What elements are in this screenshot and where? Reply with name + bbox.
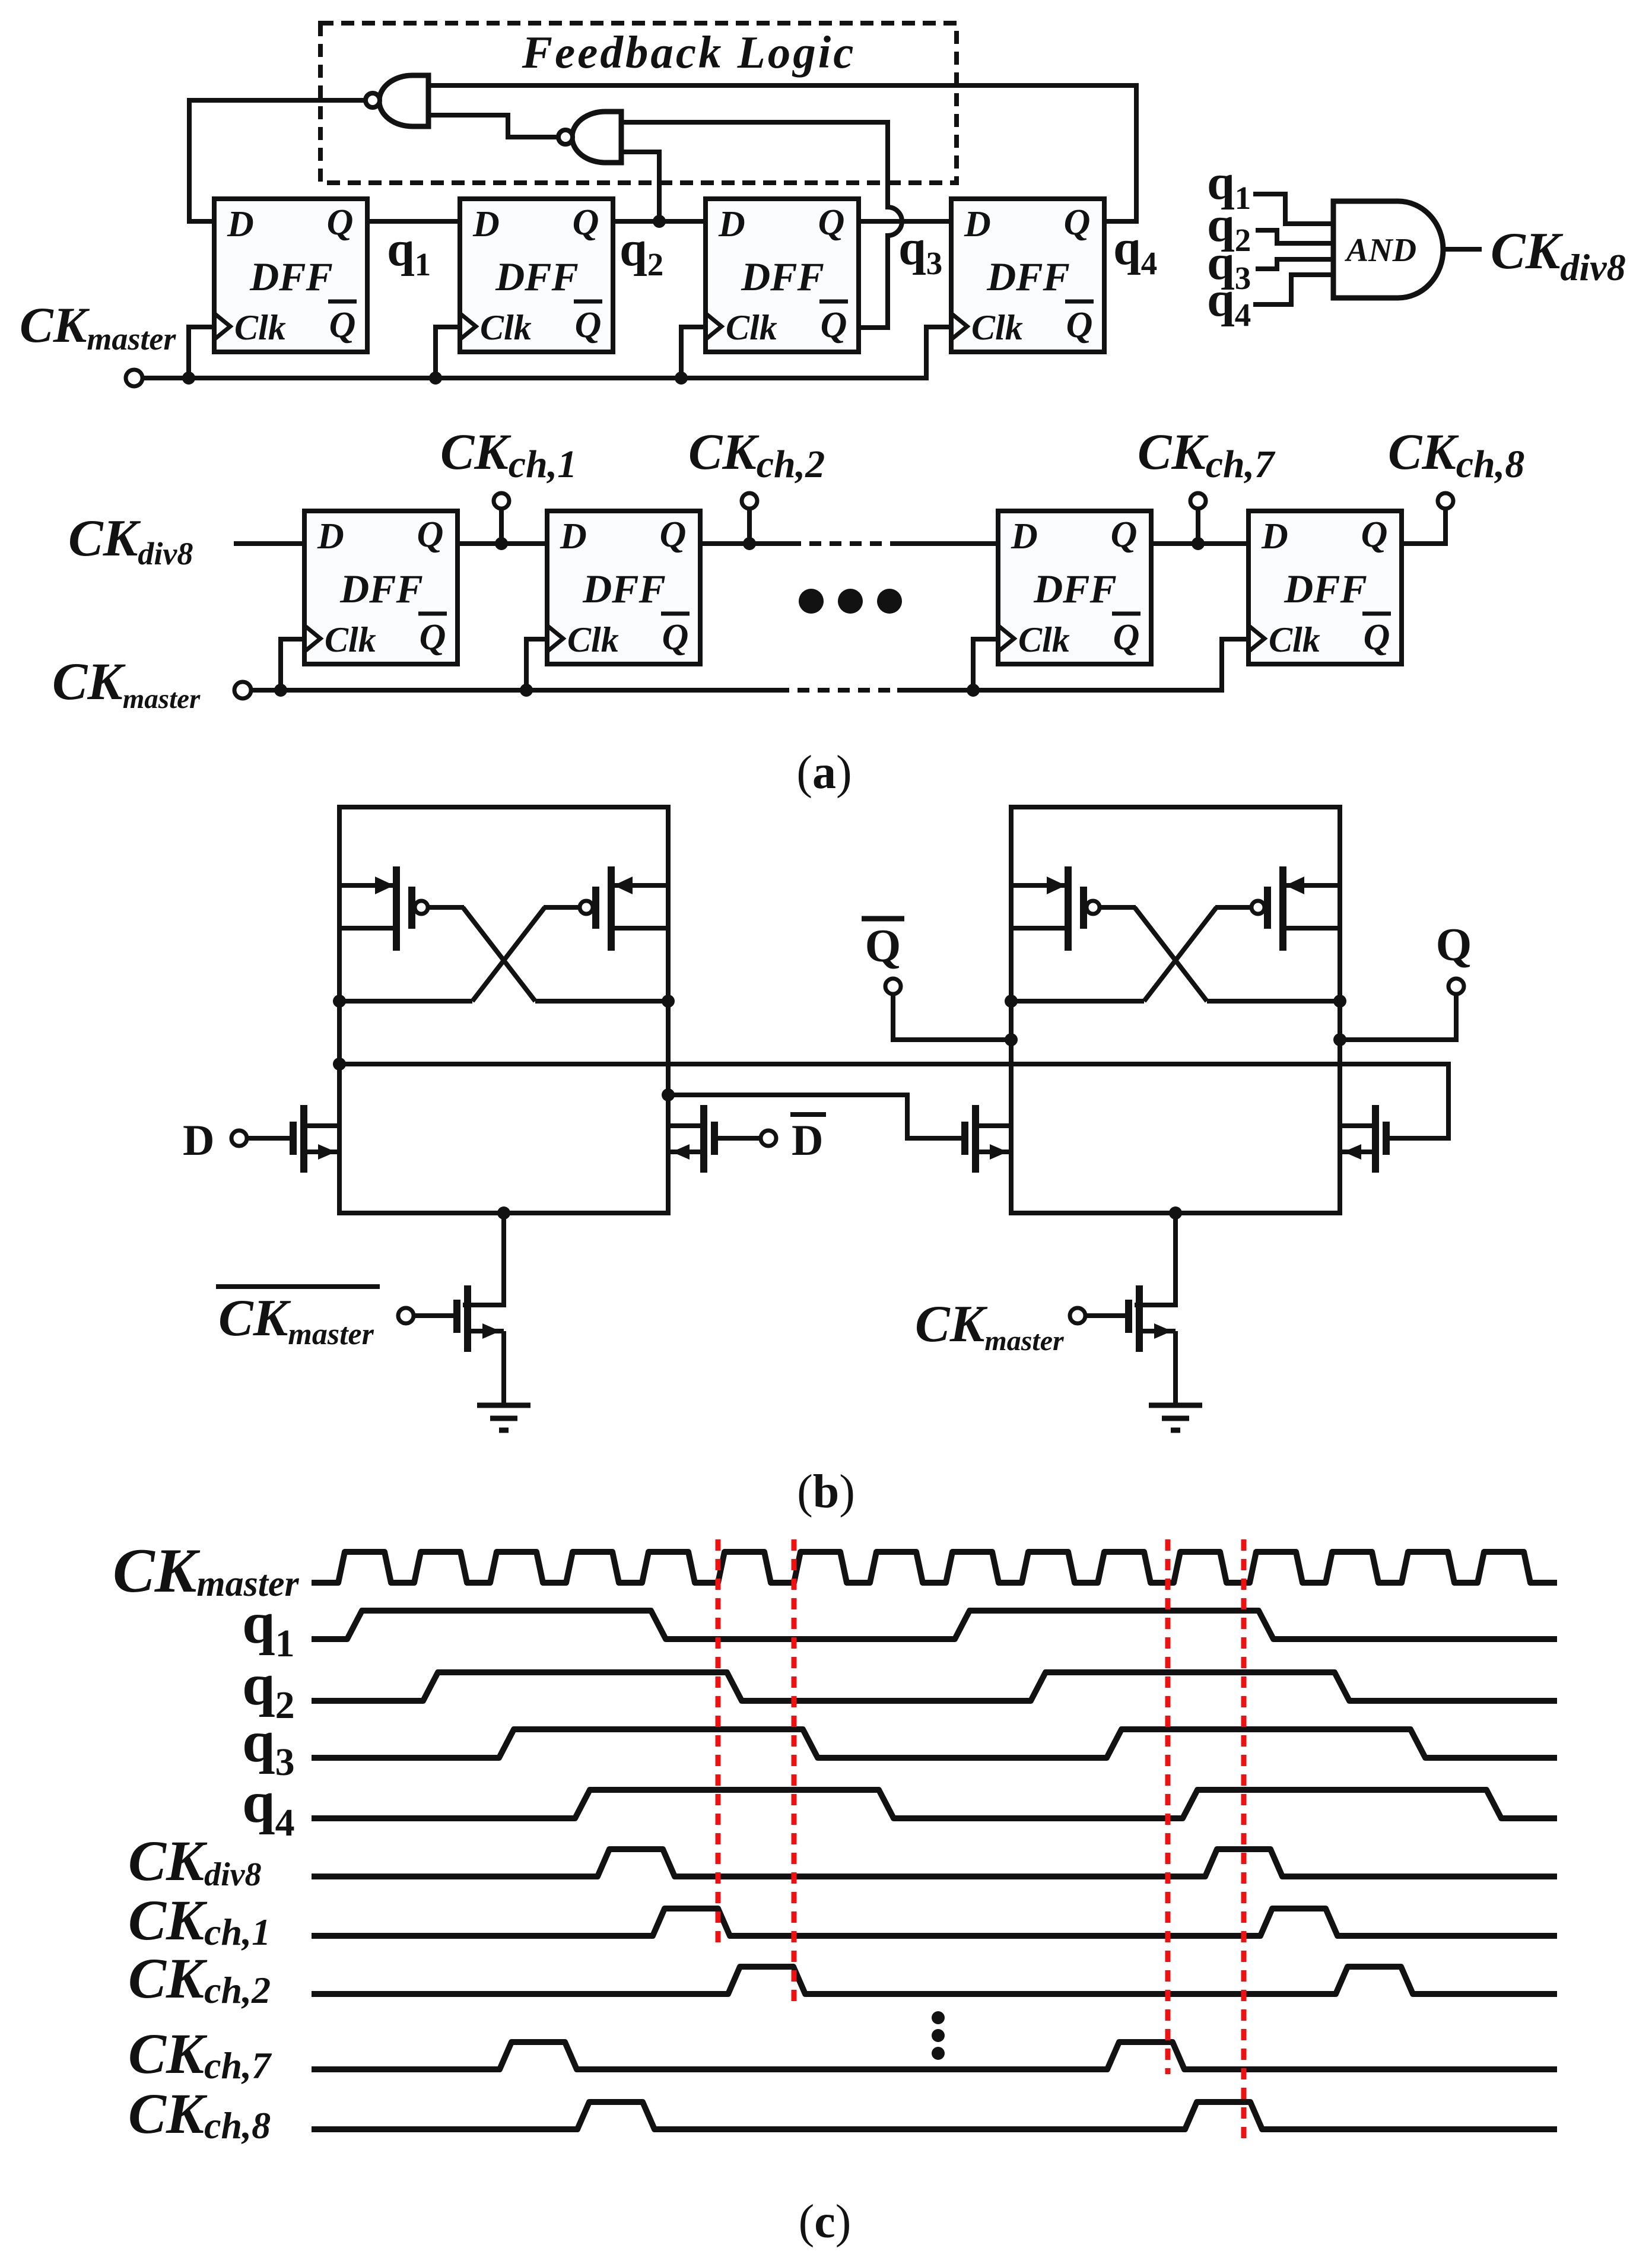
waveform: q4	[312, 1790, 1557, 1818]
wire: AND input q4	[1253, 275, 1333, 304]
transistor M4 (NMOS input, right)	[668, 1105, 714, 1173]
svg-text:Q: Q	[865, 920, 901, 971]
ellipsis dots between DFF6 and DFF7	[799, 589, 902, 614]
node: slave latch right output junction	[1333, 995, 1346, 1008]
svg-text:DFF: DFF	[741, 254, 824, 299]
waveform: q2	[312, 1672, 1557, 1701]
transistor M10 (NMOS tail, clocked)	[1086, 1285, 1176, 1352]
svg-text:D: D	[964, 204, 991, 245]
wire: AND input q1	[1253, 194, 1333, 224]
node: master latch right output junction	[662, 995, 675, 1008]
transistor M5 (NMOS tail, clocked)	[414, 1285, 504, 1352]
svg-text:Clk: Clk	[234, 308, 286, 347]
wire: AND input q3	[1256, 259, 1333, 269]
wire: cross-coupling diagonals and output nodes	[1011, 907, 1340, 1001]
svg-text:CKch,1: CKch,1	[128, 1888, 271, 1953]
wire: master left node to slave right NMOS gate	[339, 1064, 1448, 1138]
transistor M8 (NMOS input, left)	[965, 1105, 1011, 1173]
flip-flop U1 (DFF)	[214, 199, 367, 352]
svg-text:q1: q1	[387, 221, 431, 282]
svg-text:CKch,2: CKch,2	[688, 423, 825, 486]
wire: NAND G2 bottom input down to node q2	[621, 152, 659, 221]
svg-text:CKdiv8: CKdiv8	[128, 1829, 261, 1893]
svg-text:D: D	[718, 204, 745, 245]
node: tail junction	[1169, 1206, 1182, 1220]
svg-text:CKmaster: CKmaster	[915, 1295, 1065, 1357]
svg-text:Q: Q	[1064, 202, 1091, 243]
wire: tail source to ground	[501, 1331, 506, 1405]
node: clk junction DFF6	[520, 684, 533, 697]
svg-text:CKmaster: CKmaster	[218, 1290, 374, 1351]
wire: DFF7 Q to DFF8 D (CK_ch,7 tap)	[1151, 541, 1248, 546]
red cursor line 4	[1241, 1539, 1247, 2144]
terminal: CK_ch,7 output	[1196, 508, 1200, 544]
svg-text:D: D	[472, 204, 500, 245]
svg-text:CKch,2: CKch,2	[128, 1947, 271, 2011]
ellipsis dots in timing diagram	[932, 2011, 945, 2060]
svg-text:Q: Q	[821, 305, 847, 345]
svg-text:(c): (c)	[799, 2196, 852, 2248]
svg-text:q2: q2	[619, 221, 663, 282]
node: CK_ch,2 junction	[743, 537, 756, 550]
node: Q tap junction	[1333, 1033, 1346, 1046]
ground	[1149, 1405, 1202, 1430]
flip-flop U6 (DFF)	[547, 511, 700, 664]
svg-text:CKdiv8: CKdiv8	[1491, 223, 1626, 288]
waveform: CK_ch,7	[312, 2042, 1557, 2069]
transistor M3 (NMOS input, left)	[293, 1105, 339, 1173]
svg-text:Q: Q	[327, 202, 354, 243]
node: CK_ch,7 junction	[1192, 537, 1205, 550]
terminal: CK_master input (row 1)	[126, 370, 142, 386]
slave latch frame (VDD rail / tail bus)	[1011, 807, 1340, 1213]
svg-text:Q: Q	[1066, 305, 1093, 345]
svg-text:D: D	[183, 1116, 214, 1165]
waveform: CK_ch,8	[312, 2102, 1557, 2129]
svg-text:D: D	[317, 516, 344, 557]
flip-flop U5 (DFF)	[304, 511, 458, 664]
svg-text:Q: Q	[1113, 617, 1140, 658]
svg-text:Clk: Clk	[726, 308, 777, 347]
dashed boundary box: Feedback Logic	[320, 23, 957, 183]
svg-text:Q: Q	[1111, 515, 1138, 555]
NAND gate G2	[558, 112, 621, 163]
svg-text:Clk: Clk	[325, 620, 376, 659]
svg-text:Q: Q	[1364, 617, 1390, 658]
terminal: Qbar output	[885, 979, 1011, 1040]
label: CKmaster-bar (master tail clock, with overline)	[216, 1287, 380, 1351]
svg-text:AND: AND	[1345, 232, 1416, 269]
svg-text:CKch,7: CKch,7	[128, 2022, 272, 2087]
transistor M2 (PMOS, cross-coupled load, right)	[580, 866, 668, 951]
node: tail junction	[497, 1206, 510, 1220]
svg-text:CKch,8: CKch,8	[128, 2082, 271, 2146]
wire: DFF8 Q to CK_ch,8 terminal	[1402, 508, 1445, 544]
node: q2 junction	[653, 215, 666, 228]
svg-text:CKmaster: CKmaster	[20, 297, 176, 357]
svg-text:CKch,8: CKch,8	[1388, 423, 1524, 486]
flip-flop U4 (DFF)	[951, 199, 1104, 352]
svg-text:D: D	[1011, 516, 1038, 557]
wire: DFF6 Q rightwards (CK_ch,2 tap, dashed continuation)	[700, 541, 789, 546]
svg-text:DFF: DFF	[495, 254, 579, 299]
terminal: CK_ch,8 output	[1438, 493, 1453, 509]
wire: DFF1 Q to DFF2 D (node q1)	[367, 219, 460, 224]
svg-text:Q: Q	[575, 305, 602, 345]
wire: CK_master clock distribution (row 2, dashed middle)	[251, 639, 1248, 690]
waveform: CK_ch,1	[312, 1909, 1557, 1936]
terminal: clock input of M5	[398, 1308, 414, 1323]
terminal: CK_ch,1 output	[499, 508, 504, 544]
wire: DFF3 Q to DFF4 D (node q3)	[859, 219, 951, 224]
terminal: clock input of M10	[1070, 1308, 1085, 1323]
svg-text:D: D	[1261, 516, 1288, 557]
terminal: CK_ch,2 output	[747, 508, 752, 544]
wire: master right node to slave left NMOS gate	[668, 1095, 965, 1138]
svg-text:DFF: DFF	[1284, 566, 1367, 611]
terminal: D input	[247, 1136, 293, 1141]
waveform: q1	[312, 1611, 1557, 1639]
node: junction on master left rail	[333, 1058, 346, 1071]
red cursor line 2	[792, 1539, 797, 2005]
ground	[477, 1405, 530, 1430]
wire: DFF4 Q (q4) feedback to NAND G1 top input	[428, 85, 1136, 221]
wire: NAND G2 top input to DFF3 Qbar (with hop over q3 wire)	[621, 122, 902, 328]
red cursor line 3	[1165, 1539, 1171, 2074]
wire: cross-coupling diagonals and output nodes	[339, 907, 668, 1001]
terminal: CK_master input (row 2)	[234, 682, 251, 698]
svg-text:D: D	[227, 204, 254, 245]
svg-text:DFF: DFF	[986, 254, 1070, 299]
wire: AND input q2	[1256, 230, 1333, 243]
svg-text:(b): (b)	[797, 1466, 855, 1518]
node: Qbar tap junction	[1005, 1033, 1018, 1046]
wire: CK_div8 to DFF5 D	[234, 541, 304, 546]
wire: DFF5 Q to DFF6 D (CK_ch,1 tap)	[458, 541, 547, 546]
svg-text:Q: Q	[573, 202, 599, 243]
flip-flop U7 (DFF)	[998, 511, 1151, 664]
node: junction on master right rail	[662, 1088, 675, 1101]
red cursor line 1	[716, 1539, 721, 1948]
node: clk junction DFF5	[274, 684, 287, 697]
NAND gate G1	[366, 75, 428, 126]
waveform: CK_ch,2	[312, 1967, 1557, 1994]
wire: CK_master clock distribution (row 1)	[142, 327, 951, 378]
svg-text:Q: Q	[662, 617, 689, 658]
node: clk junction DFF2	[429, 371, 442, 385]
node: clk junction DFF3	[675, 371, 688, 385]
svg-text:DFF: DFF	[249, 254, 333, 299]
waveform: q3	[312, 1729, 1557, 1758]
wire: tail node down to M5	[463, 1213, 504, 1305]
flip-flop U2 (DFF)	[460, 199, 613, 352]
svg-text:Q: Q	[818, 202, 845, 243]
svg-text:Q: Q	[420, 617, 446, 658]
node: slave latch left output junction	[1005, 995, 1018, 1008]
label: Dbar input	[790, 1114, 826, 1165]
wire: tail source to ground	[1173, 1331, 1178, 1405]
transistor M6 (PMOS, cross-coupled load, left)	[1011, 866, 1100, 951]
AND gate U9	[1333, 201, 1443, 298]
svg-text:Q: Q	[417, 515, 444, 555]
svg-text:(a): (a)	[796, 747, 852, 799]
svg-text:CKch,7: CKch,7	[1138, 423, 1276, 486]
svg-text:Q: Q	[329, 305, 356, 345]
svg-text:Q: Q	[660, 515, 687, 555]
svg-text:q3: q3	[898, 220, 942, 281]
svg-text:DFF: DFF	[1033, 566, 1117, 611]
flip-flop U3 (DFF)	[706, 199, 859, 352]
node: master latch left output junction	[333, 995, 346, 1008]
svg-text:Clk: Clk	[1269, 620, 1320, 659]
terminal: Dbar input	[714, 1136, 761, 1141]
svg-text:q4: q4	[1113, 220, 1157, 281]
terminal: Q output	[1340, 979, 1464, 1040]
svg-text:Clk: Clk	[1018, 620, 1070, 659]
wire: NAND G2 output to NAND G1 bottom input	[428, 115, 558, 137]
svg-text:CKdiv8: CKdiv8	[68, 510, 193, 571]
label: Qbar output	[862, 919, 904, 971]
wire: DFF2 Q to DFF3 D (node q2)	[613, 219, 706, 224]
svg-text:Clk: Clk	[971, 308, 1023, 347]
svg-text:CKch,1: CKch,1	[440, 423, 577, 486]
waveform: CK_div8	[312, 1849, 1557, 1876]
svg-text:D: D	[792, 1116, 823, 1165]
svg-text:Q: Q	[1436, 919, 1472, 970]
node: clk junction DFF7	[967, 684, 980, 697]
transistor M1 (PMOS, cross-coupled load, left)	[339, 866, 428, 951]
node: CK_ch,1 junction	[495, 537, 508, 550]
wire: NAND G1 output to DFF1 D input	[189, 100, 366, 221]
svg-text:CKmaster: CKmaster	[52, 653, 201, 715]
transistor M7 (PMOS, cross-coupled load, right)	[1251, 866, 1340, 951]
svg-text:Clk: Clk	[480, 308, 532, 347]
svg-text:Q: Q	[1361, 515, 1388, 555]
svg-text:D: D	[560, 516, 587, 557]
waveform: CK_master	[312, 1552, 1557, 1583]
wire: AND output CKdiv8	[1443, 247, 1482, 252]
wire: tail node down to M10	[1135, 1213, 1176, 1305]
node: clk junction DFF1	[182, 371, 195, 385]
svg-text:DFF: DFF	[339, 566, 423, 611]
svg-text:Feedback Logic: Feedback Logic	[522, 27, 856, 78]
svg-text:Clk: Clk	[567, 620, 619, 659]
master latch frame (VDD rail / tail bus)	[339, 807, 668, 1213]
flip-flop U8 (DFF)	[1248, 511, 1402, 664]
svg-text:DFF: DFF	[582, 566, 666, 611]
transistor M9 (NMOS input, right)	[1340, 1105, 1386, 1173]
